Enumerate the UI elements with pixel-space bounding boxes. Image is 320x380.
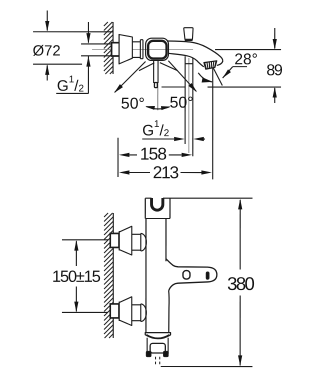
svg-text:158: 158 (140, 144, 167, 164)
svg-text:28°: 28° (234, 51, 257, 68)
svg-text:150±15: 150±15 (52, 268, 101, 286)
svg-text:50°: 50° (121, 96, 145, 113)
svg-text:213: 213 (153, 162, 179, 182)
svg-text:89: 89 (266, 62, 283, 79)
svg-text:380: 380 (227, 273, 254, 294)
svg-text:50°: 50° (170, 95, 194, 112)
svg-text:Ø72: Ø72 (33, 43, 61, 59)
